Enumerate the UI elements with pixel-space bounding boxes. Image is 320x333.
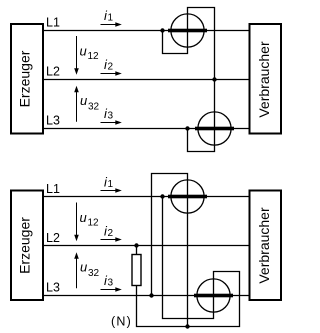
svg-text:u: u [80,210,87,225]
svg-text:L3: L3 [46,281,60,295]
svg-text:L1: L1 [46,16,60,30]
svg-text:u: u [80,44,87,59]
svg-text:L2: L2 [46,231,60,245]
svg-text:2: 2 [108,62,114,73]
svg-text:Erzeuger: Erzeuger [17,50,33,107]
svg-text:12: 12 [88,218,100,229]
svg-text:Verbraucher: Verbraucher [256,41,272,118]
svg-text:32: 32 [88,268,100,279]
svg-text:Verbraucher: Verbraucher [256,207,272,284]
svg-text:L3: L3 [46,114,60,128]
svg-text:3: 3 [108,278,114,289]
svg-text:Erzeuger: Erzeuger [17,217,33,274]
svg-text:12: 12 [88,51,100,62]
svg-text:u: u [80,260,87,275]
svg-text:L1: L1 [46,182,60,196]
svg-text:1: 1 [108,179,114,190]
svg-text:1: 1 [108,13,114,24]
svg-text:32: 32 [88,102,100,113]
svg-text:2: 2 [108,228,114,239]
svg-text:L2: L2 [46,65,60,79]
svg-text:u: u [80,93,87,108]
svg-text:3: 3 [108,111,114,122]
svg-text:(N): (N) [111,315,132,329]
